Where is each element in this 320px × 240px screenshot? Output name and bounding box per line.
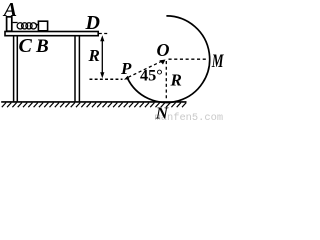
svg-text:R: R bbox=[88, 46, 100, 65]
left leg bbox=[14, 36, 18, 101]
svg-text:C: C bbox=[19, 35, 33, 57]
svg-text:M: M bbox=[211, 51, 224, 72]
dashed line at tabletop level (right of D) bbox=[99, 33, 108, 35]
spring bbox=[13, 23, 39, 30]
dashed horizontal line at P level bbox=[90, 78, 123, 80]
svg-text:A: A bbox=[2, 0, 17, 21]
dashed radius OM bbox=[169, 58, 207, 60]
block B on table bbox=[38, 21, 47, 31]
svg-text:P: P bbox=[120, 59, 132, 78]
svg-text:D: D bbox=[85, 12, 100, 34]
circular track arc (center O, from top through M and N to P) bbox=[127, 16, 210, 103]
right leg bbox=[75, 36, 79, 101]
svg-text:B: B bbox=[35, 36, 49, 57]
dashed line P to O with arrowheads bbox=[124, 60, 166, 80]
post (wall A) bbox=[7, 17, 12, 31]
svg-text:O: O bbox=[157, 40, 170, 60]
svg-text:R: R bbox=[170, 71, 182, 90]
R measurement arrow (double headed) bbox=[100, 35, 104, 78]
svg-text:N: N bbox=[155, 104, 169, 122]
svg-text:45°: 45° bbox=[140, 65, 163, 84]
dashed radius ON bbox=[165, 61, 167, 101]
tabletop bbox=[5, 32, 98, 36]
ground line with hatching bbox=[1, 101, 186, 103]
